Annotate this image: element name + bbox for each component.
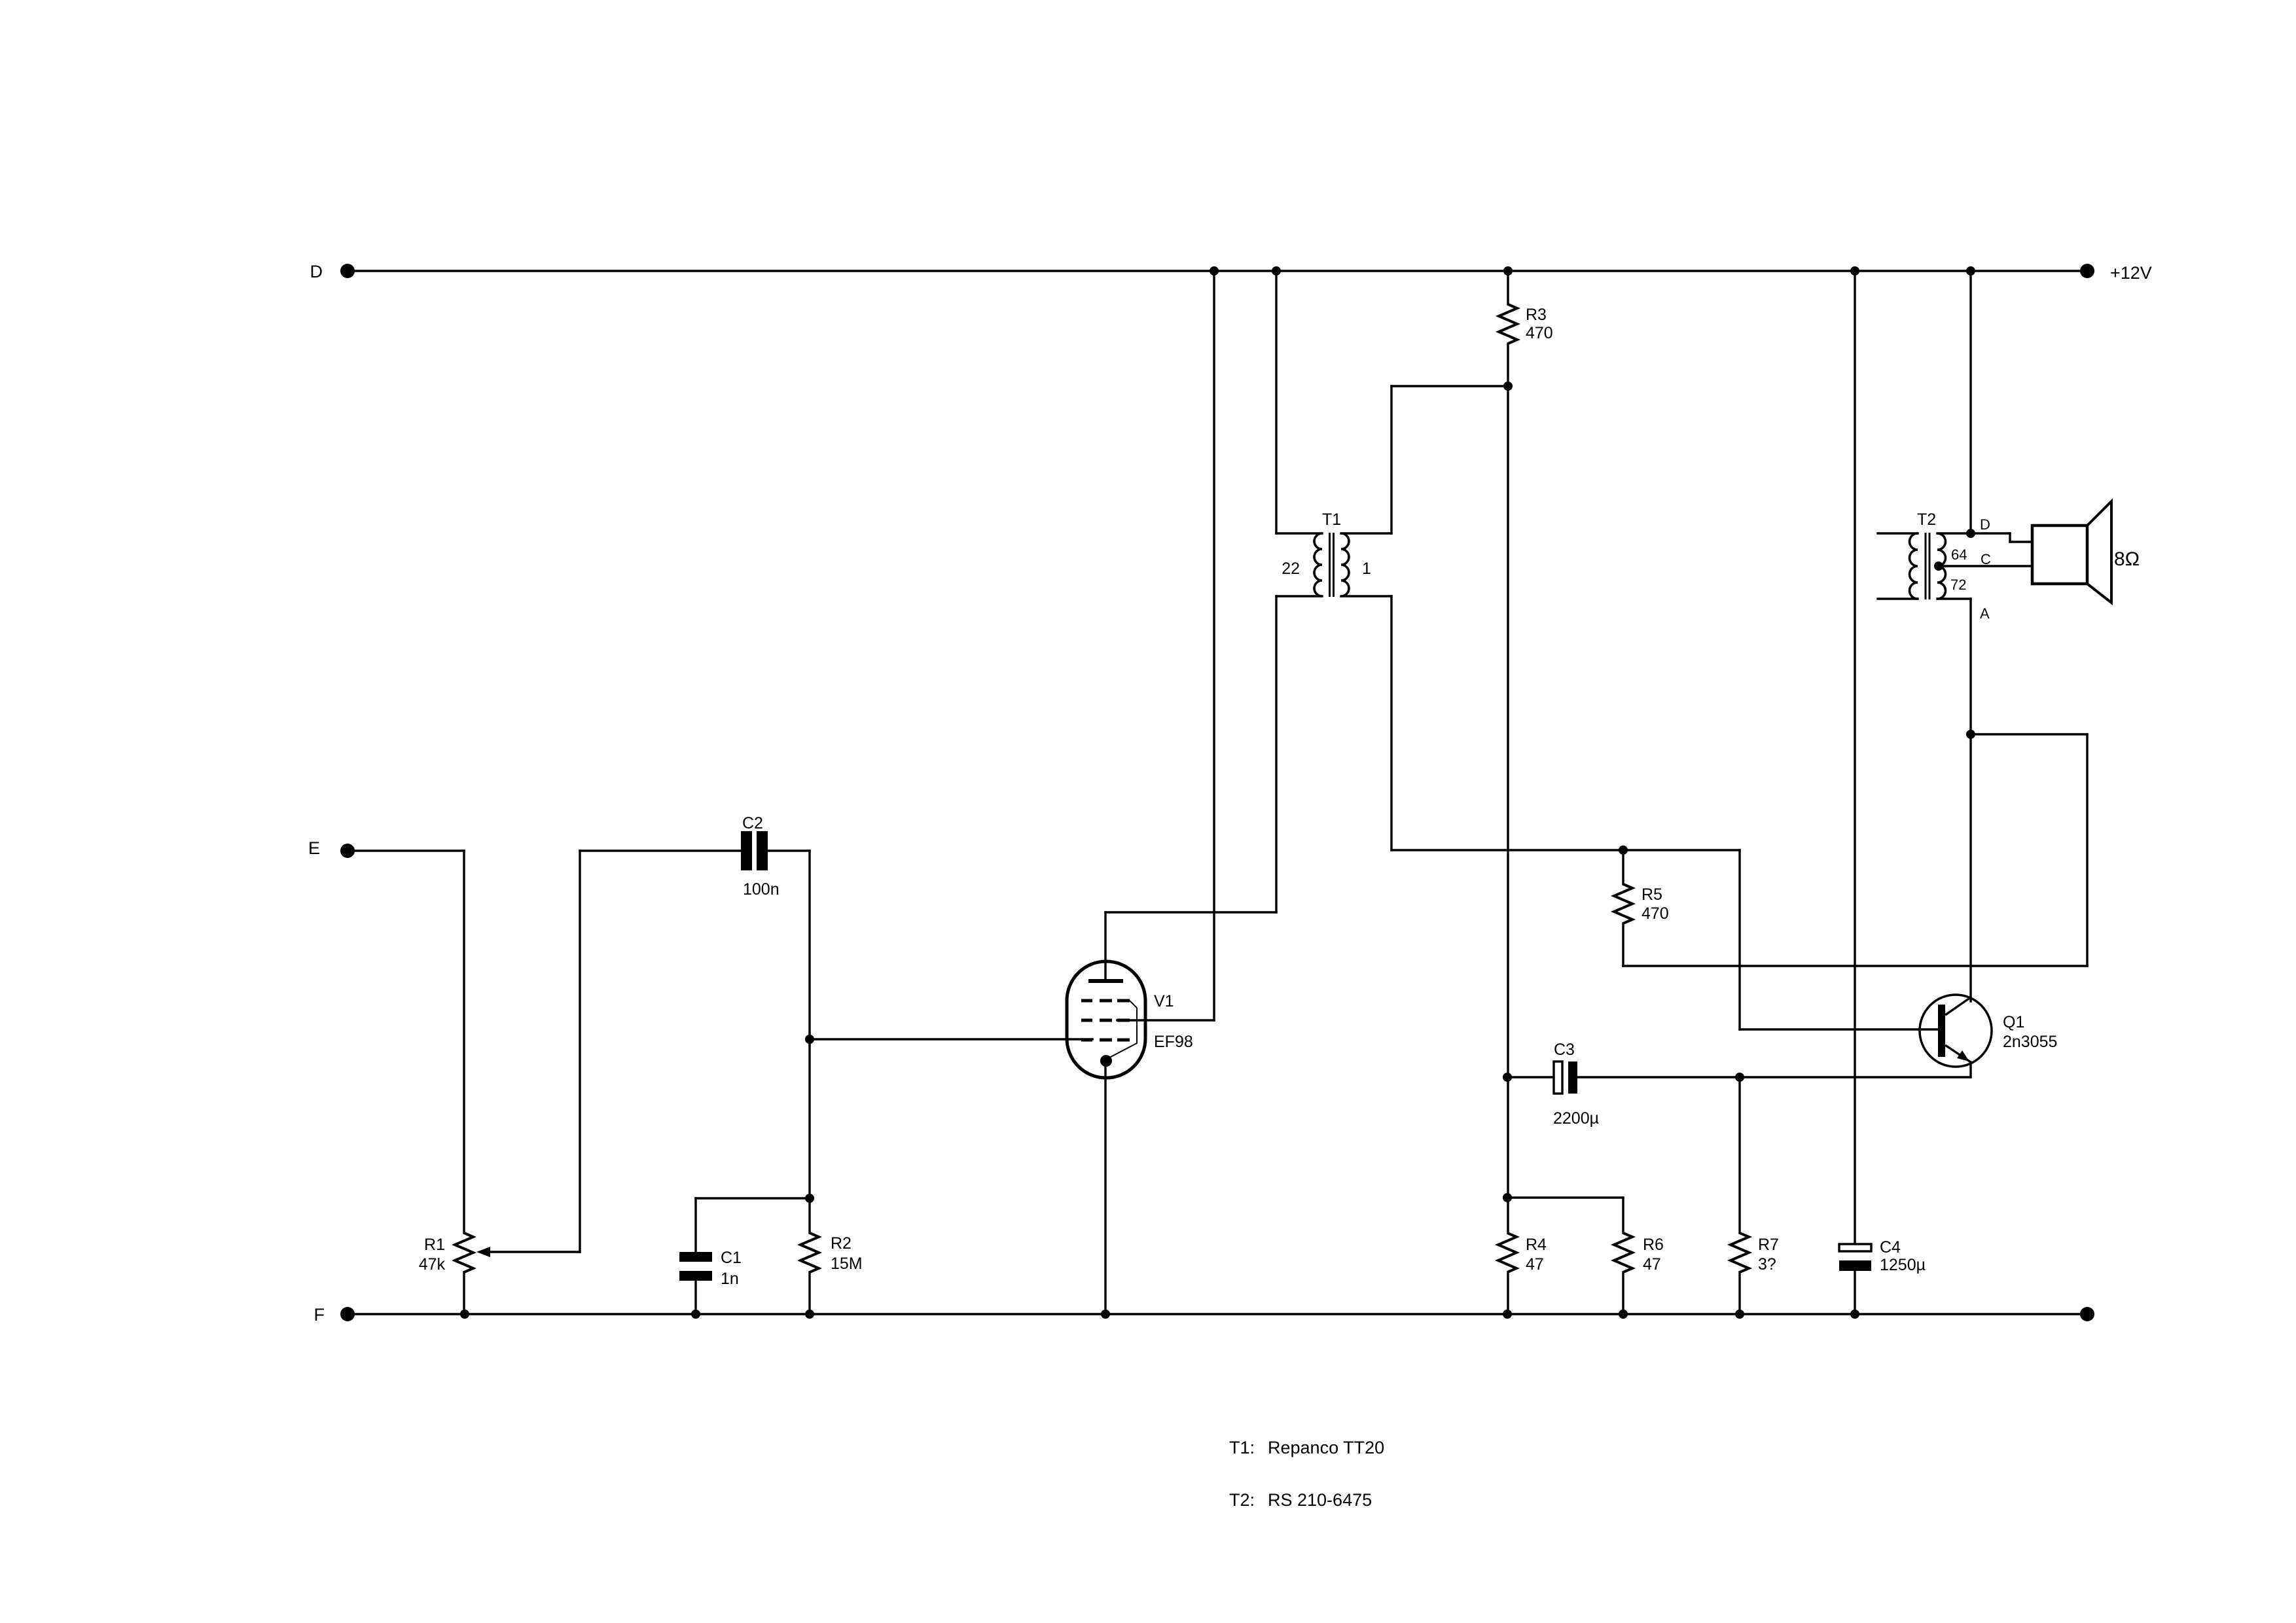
svg-text:Repanco TT20: Repanco TT20: [1268, 1438, 1384, 1457]
svg-text:3?: 3?: [1758, 1255, 1776, 1274]
svg-text:1: 1: [1362, 560, 1371, 578]
svg-text:V1: V1: [1154, 992, 1174, 1010]
svg-text:64: 64: [1951, 546, 1967, 563]
svg-text:D: D: [310, 262, 323, 281]
svg-text:100n: 100n: [743, 880, 780, 899]
svg-text:+12V: +12V: [2110, 263, 2152, 283]
svg-text:72: 72: [1950, 577, 1966, 593]
svg-text:C1: C1: [721, 1249, 742, 1267]
svg-text:T1:: T1:: [1229, 1438, 1255, 1457]
svg-text:A: A: [1980, 605, 1990, 622]
svg-text:C4: C4: [1880, 1238, 1901, 1257]
svg-text:E: E: [308, 838, 320, 858]
svg-text:T1: T1: [1322, 510, 1341, 529]
svg-text:47k: 47k: [419, 1255, 446, 1274]
svg-text:R5: R5: [1641, 885, 1662, 904]
svg-text:RS 210-6475: RS 210-6475: [1268, 1490, 1372, 1510]
svg-text:8Ω: 8Ω: [2114, 548, 2140, 570]
svg-text:1250µ: 1250µ: [1880, 1256, 1926, 1274]
svg-text:C3: C3: [1554, 1041, 1575, 1059]
svg-text:47: 47: [1643, 1255, 1661, 1274]
svg-text:T2: T2: [1917, 510, 1936, 529]
svg-text:22: 22: [1282, 560, 1300, 578]
svg-text:R1: R1: [424, 1236, 445, 1254]
svg-text:15M: 15M: [831, 1255, 863, 1273]
svg-text:2200µ: 2200µ: [1553, 1109, 1599, 1128]
svg-text:Q1: Q1: [2003, 1013, 2024, 1031]
svg-text:470: 470: [1526, 324, 1553, 342]
svg-text:2n3055: 2n3055: [2003, 1033, 2057, 1051]
svg-text:R3: R3: [1526, 306, 1547, 324]
svg-text:C: C: [1981, 551, 1991, 567]
svg-text:C2: C2: [742, 814, 763, 832]
svg-text:470: 470: [1641, 904, 1669, 923]
svg-text:R4: R4: [1526, 1236, 1547, 1254]
svg-text:F: F: [314, 1305, 325, 1325]
svg-text:R2: R2: [831, 1234, 852, 1253]
svg-text:1n: 1n: [721, 1270, 739, 1288]
svg-text:R6: R6: [1643, 1236, 1664, 1254]
svg-text:R7: R7: [1758, 1236, 1779, 1254]
svg-text:D: D: [1980, 516, 1990, 533]
svg-text:EF98: EF98: [1154, 1033, 1193, 1051]
svg-text:47: 47: [1526, 1255, 1544, 1274]
svg-text:T2:: T2:: [1229, 1490, 1255, 1510]
